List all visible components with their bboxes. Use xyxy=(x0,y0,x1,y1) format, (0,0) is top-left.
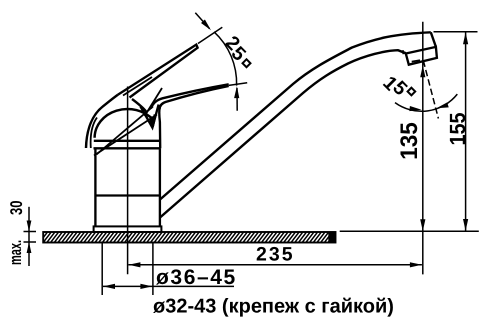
V notch xyxy=(141,105,159,128)
faucet body left edge xyxy=(94,148,96,226)
dashed axis 15deg xyxy=(423,61,438,119)
arrow 15deg left xyxy=(409,106,421,111)
svg-text:ø32-43 (крепеж с гайкой): ø32-43 (крепеж с гайкой) xyxy=(153,296,394,318)
arrow 235 left xyxy=(128,262,140,267)
spout end face xyxy=(431,32,436,47)
arrow 155 top xyxy=(463,32,468,44)
collar line xyxy=(94,140,160,142)
dome xyxy=(95,109,153,138)
escutcheon xyxy=(94,226,162,232)
dim 235 xyxy=(128,264,422,266)
aerator centerline and dim line 135 xyxy=(422,22,424,275)
arrow hole dia right xyxy=(140,284,152,289)
extension tick top xyxy=(24,231,37,233)
dim max 30 vertical line xyxy=(28,207,30,266)
faucet body top xyxy=(94,147,161,149)
body mid joint xyxy=(95,194,159,196)
arrow 135 bottom xyxy=(420,219,425,231)
svg-text:235: 235 xyxy=(256,244,295,266)
arc 25deg xyxy=(214,32,237,86)
arc 15deg xyxy=(395,94,457,111)
dim 155 xyxy=(465,32,467,231)
handle front edge xyxy=(158,106,161,148)
upper lever raised xyxy=(118,45,198,98)
V notch emphasis xyxy=(151,115,156,127)
arrow 135 top xyxy=(420,65,425,77)
countertop extension line right xyxy=(340,230,479,232)
extension tick bottom xyxy=(24,241,37,243)
arrow hole dia left xyxy=(103,284,115,289)
arrow 25deg lower xyxy=(234,86,239,98)
crossing stroke at blade root xyxy=(145,88,162,116)
svg-text:135: 135 xyxy=(396,122,423,160)
arrow max30 upper xyxy=(27,221,32,232)
countertop xyxy=(36,232,343,243)
lower lever bottom edge xyxy=(160,86,229,110)
spout upper edge xyxy=(160,32,431,199)
raised lever underside xyxy=(132,99,146,112)
hole edge vertical left xyxy=(101,243,103,295)
lower arrow shaft xyxy=(236,88,238,111)
lower lever top edge xyxy=(151,84,229,108)
aerator xyxy=(406,47,437,65)
top extension line xyxy=(434,31,478,33)
arrow 25deg upper xyxy=(201,20,211,31)
spout lower edge xyxy=(160,50,406,217)
arrow 235 right xyxy=(410,262,422,267)
arrow 15deg right xyxy=(436,102,448,108)
svg-text:ø36–45: ø36–45 xyxy=(156,266,237,289)
steep diagonal xyxy=(97,107,154,155)
hood inner xyxy=(91,118,97,149)
dim line for hole dia xyxy=(103,285,234,287)
countertop end block xyxy=(328,232,335,242)
svg-text:max.: max. xyxy=(6,240,25,265)
hood outer xyxy=(86,95,118,148)
svg-text:30: 30 xyxy=(7,201,26,216)
aerator notch xyxy=(402,50,405,54)
centerline xyxy=(127,87,129,275)
arrow max30 lower xyxy=(27,242,32,253)
svg-text:155: 155 xyxy=(445,113,470,146)
radial arrow shaft xyxy=(195,13,209,29)
faucet body right edge xyxy=(159,148,161,226)
arrow 155 bottom xyxy=(463,219,468,231)
aerator slot xyxy=(412,60,420,61)
dim 25deg extension lower xyxy=(229,83,247,86)
blade root inner line xyxy=(123,77,152,96)
shallow diagonal xyxy=(94,115,157,156)
hole edge vertical right xyxy=(152,243,154,295)
dim 25deg extension upper xyxy=(198,27,222,43)
